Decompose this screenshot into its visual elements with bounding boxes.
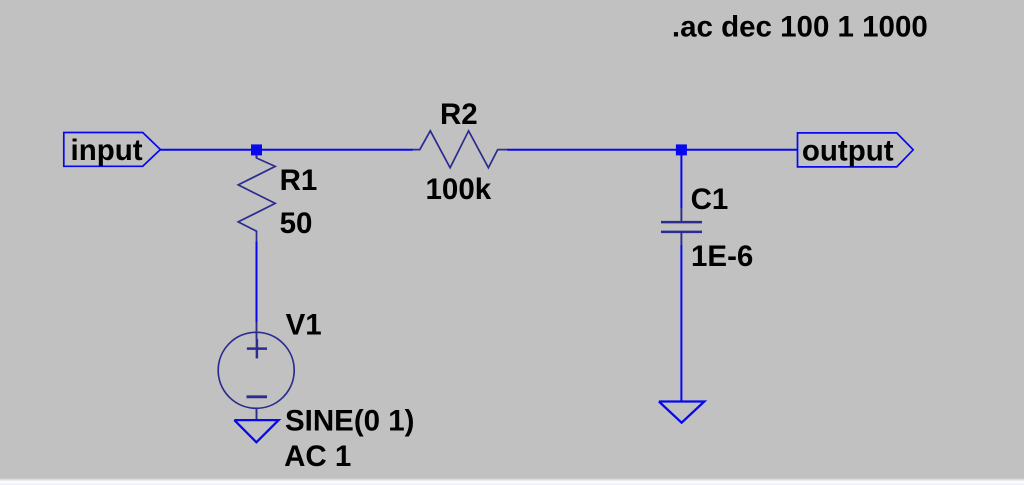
voltage source V1 [218, 322, 294, 420]
svg-text:C1: C1 [691, 183, 729, 216]
port flag input [64, 133, 161, 168]
node A junction [251, 144, 262, 155]
ground under C1 [659, 402, 704, 423]
resistor R2 [412, 131, 507, 168]
wire C1 to ground [680, 245, 682, 402]
svg-text:R2: R2 [440, 98, 478, 131]
svg-text:100k: 100k [426, 173, 492, 206]
node B junction [676, 144, 687, 155]
port flag output [798, 133, 914, 167]
wire R1 to V1 [256, 242, 258, 323]
ground under V1 [234, 420, 278, 442]
svg-text:R1: R1 [280, 164, 318, 197]
svg-text:input: input [71, 134, 143, 167]
svg-text:50: 50 [280, 207, 313, 240]
svg-text:AC 1: AC 1 [284, 440, 351, 473]
svg-text:.ac dec 100 1 1000: .ac dec 100 1 1000 [672, 10, 928, 43]
svg-text:1E-6: 1E-6 [691, 240, 753, 273]
bottom status strip [0, 478, 1024, 485]
wire input to R2 [160, 149, 413, 151]
resistor R1 [238, 155, 275, 242]
wire node A down to R1 [256, 150, 258, 158]
capacitor C1 [661, 208, 702, 245]
wire node B down to C1 [680, 150, 682, 208]
svg-text:output: output [802, 134, 894, 167]
svg-text:SINE(0 1): SINE(0 1) [285, 405, 415, 438]
wire R2 to output [507, 149, 798, 151]
svg-text:V1: V1 [286, 308, 322, 341]
